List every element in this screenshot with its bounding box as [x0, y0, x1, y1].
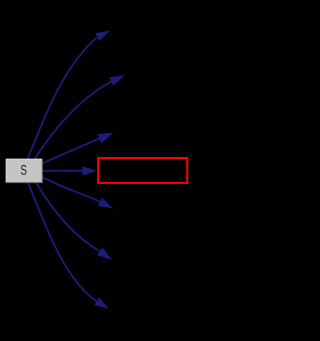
wire edge S to red node	[42, 170, 83, 172]
arrowhead edge6	[97, 247, 112, 260]
node target (red highlighted, empty)	[98, 158, 187, 183]
arrowhead edge5	[98, 198, 114, 209]
node S label	[21, 165, 27, 175]
wire edge S to node1 (top)	[28, 37, 97, 159]
arrowhead edge7	[94, 297, 109, 308]
node S bevel highlight (top-left)	[6, 159, 42, 182]
arrowhead edge4	[82, 166, 96, 175]
node S bevel shadow (bottom-right)	[6, 159, 42, 182]
wire edge S to node3	[43, 139, 100, 164]
wire edge S to node7 (bottom)	[28, 183, 96, 301]
arrowhead edge2	[109, 75, 124, 85]
wire edge S to node5	[42, 177, 100, 202]
node S (gray box)	[6, 159, 42, 182]
wire edge S to node6	[36, 183, 100, 251]
arrowhead edge3	[98, 133, 114, 143]
arrowhead edge1	[95, 31, 110, 42]
wire edge S to node2	[35, 82, 112, 160]
